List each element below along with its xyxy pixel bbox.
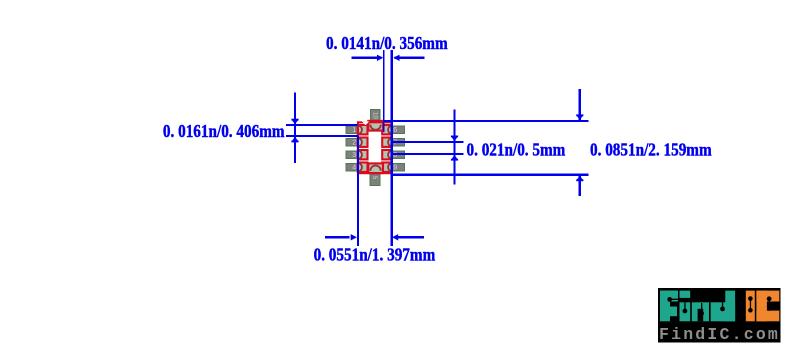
pad P6 xyxy=(382,163,392,172)
pad P4 xyxy=(358,163,368,172)
right pitch vline xyxy=(454,110,456,185)
arrowhead top-right xyxy=(393,55,399,61)
arrowhead span down xyxy=(576,114,583,116)
svg-text:7: 7 xyxy=(393,140,397,147)
pin 3 lead xyxy=(346,151,366,159)
arc pad4 xyxy=(358,163,362,171)
pin 5 lead bottom xyxy=(370,170,380,186)
svg-text:FindIC.com: FindIC.com xyxy=(659,325,780,344)
top arrow line right xyxy=(395,57,425,59)
pad P7 xyxy=(382,150,392,159)
pin 2 lead xyxy=(346,138,366,146)
svg-text:8: 8 xyxy=(393,152,397,159)
logo C xyxy=(756,291,779,302)
svg-text:2: 2 xyxy=(352,140,356,147)
logo F xyxy=(660,291,670,322)
pin 6 lead xyxy=(383,163,405,171)
svg-text:0. 0141n/0. 356mm: 0. 0141n/0. 356mm xyxy=(326,33,448,54)
arrowhead bottom-right xyxy=(392,234,398,240)
pin 10 lead top xyxy=(371,110,381,126)
package body outline xyxy=(358,122,392,173)
pad P8 xyxy=(382,138,392,147)
pad P10 top xyxy=(368,121,383,131)
right pitch dim line lower xyxy=(392,153,464,155)
pad P2 xyxy=(358,138,368,147)
pin 7 lead xyxy=(383,151,405,159)
pin 9 lead xyxy=(383,126,405,134)
blue dimension graphics xyxy=(286,50,589,246)
pin1 notch xyxy=(362,121,369,125)
arc pad10 xyxy=(370,125,380,130)
arc pad5 xyxy=(370,166,380,171)
pad P3 xyxy=(358,150,368,159)
FindIC logo xyxy=(658,288,781,344)
dimension texts xyxy=(163,33,712,265)
dim ext line left-top thin xyxy=(383,50,384,132)
svg-text:4: 4 xyxy=(352,165,356,172)
svg-text:0. 0551n/1. 397mm: 0. 0551n/1. 397mm xyxy=(314,244,436,265)
logo i xyxy=(680,291,691,298)
top arrow line left xyxy=(352,57,382,59)
svg-text:6: 6 xyxy=(393,127,397,134)
svg-text:0. 021n/0. 5mm: 0. 021n/0. 5mm xyxy=(467,139,566,160)
arc pad7 xyxy=(388,151,392,159)
arc pad9 xyxy=(388,126,392,134)
arc pad2 xyxy=(358,138,362,146)
bottom arrow line left xyxy=(325,236,350,238)
svg-text:10: 10 xyxy=(372,112,378,119)
left dim line upper xyxy=(286,124,358,126)
arc pad8 xyxy=(388,138,392,146)
bottom arrow line right xyxy=(395,236,425,238)
pad P9 xyxy=(382,125,392,134)
logo d xyxy=(711,302,736,321)
span dim line lower xyxy=(391,174,589,176)
pin 8 lead xyxy=(383,138,405,146)
arrowhead span up xyxy=(576,179,583,181)
arc pad6 xyxy=(388,163,392,171)
arc pad3 xyxy=(358,151,362,159)
logo I xyxy=(746,291,755,322)
svg-text:9: 9 xyxy=(393,165,397,172)
arrowhead pitch down xyxy=(451,136,458,138)
pin 1 lead xyxy=(346,126,366,134)
arrowhead pitch up xyxy=(451,159,458,161)
span dim line upper xyxy=(384,120,589,122)
IC footprint land pattern xyxy=(346,110,405,186)
left dim line lower xyxy=(286,135,358,137)
dim ext line body-left xyxy=(357,136,359,247)
svg-text:0. 0851n/2. 159mm: 0. 0851n/2. 159mm xyxy=(590,139,712,160)
dim ext line right-top thick xyxy=(390,50,393,246)
logo n xyxy=(692,302,709,321)
left dim vline xyxy=(294,93,296,164)
arrowhead bottom-left xyxy=(351,234,357,240)
right pitch dim line upper xyxy=(392,141,464,143)
pad P1 xyxy=(358,125,368,134)
arrowhead left-dim down xyxy=(291,119,298,121)
pin 4 lead xyxy=(346,163,366,171)
arc pad1 xyxy=(358,126,362,134)
svg-text:3: 3 xyxy=(352,152,356,159)
arrowhead top-left xyxy=(377,55,383,61)
svg-text:0. 0161n/0. 406mm: 0. 0161n/0. 406mm xyxy=(163,121,285,142)
span dim vline xyxy=(579,89,581,120)
arrowhead left-dim up xyxy=(291,141,298,143)
pad P5 bottom xyxy=(368,163,383,173)
svg-text:1: 1 xyxy=(352,127,356,134)
